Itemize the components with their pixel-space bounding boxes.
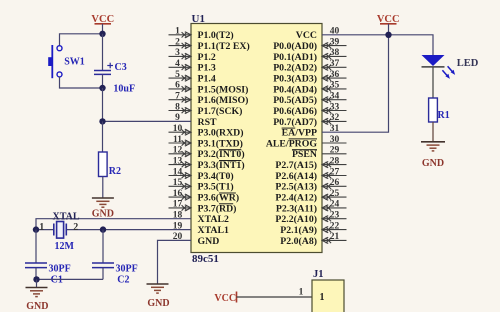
svg-text:17: 17 [173, 200, 183, 210]
designator J1 [313, 269, 324, 280]
value 30PF (C1) [49, 264, 71, 275]
U1 pin 26 (P2.5(A13)) [275, 178, 346, 193]
J1 pin number 1 [299, 288, 304, 298]
svg-text:GND: GND [422, 158, 444, 169]
svg-text:29: 29 [330, 146, 340, 156]
svg-text:PSEN: PSEN [292, 149, 317, 160]
wire to RST (pin 9) [103, 88, 192, 121]
svg-text:14: 14 [173, 167, 183, 177]
svg-text:P0.1(AD1): P0.1(AD1) [273, 52, 317, 63]
capacitor C3 [94, 34, 113, 88]
svg-text:10: 10 [173, 124, 183, 134]
svg-text:P2.6(A14): P2.6(A14) [275, 171, 317, 182]
svg-text:P2.4(A12): P2.4(A12) [275, 193, 317, 204]
crystal XTAL 12M [36, 222, 103, 239]
U1 pin 3 (P1.2) [169, 48, 216, 63]
svg-text:P2.5(A13): P2.5(A13) [275, 182, 317, 193]
U1 pin 8 (P1.7(SCK)) [169, 102, 243, 117]
svg-text:22: 22 [330, 221, 340, 231]
U1 pin 14 (P3.4(T0)) [169, 167, 234, 182]
U1 pin 1 (P1.0(T2)) [169, 27, 234, 42]
svg-text:LED: LED [457, 58, 479, 69]
LED D1 [422, 55, 445, 67]
svg-text:1: 1 [320, 292, 325, 303]
ground below C1 [26, 279, 49, 312]
svg-text:P1.6(MISO): P1.6(MISO) [198, 95, 249, 106]
U1 pin 10 (P3.0(RXD)) [169, 124, 244, 139]
svg-text:12: 12 [173, 146, 183, 156]
svg-text:EA/VPP: EA/VPP [282, 128, 317, 139]
svg-text:2: 2 [73, 222, 78, 233]
power VCC bottom [214, 292, 236, 305]
ground below pin 20 [147, 284, 170, 309]
svg-text:R1: R1 [438, 110, 450, 121]
U1 pin 17 (P3.7(RD)) [169, 200, 237, 215]
svg-text:GND: GND [147, 298, 169, 309]
value label 89c51 [192, 253, 219, 265]
svg-text:VCC: VCC [214, 293, 236, 304]
U1 pin 40 (VCC) [296, 27, 340, 42]
U1 pin 36 (P0.3(AD3)) [273, 70, 346, 85]
svg-text:89c51: 89c51 [192, 253, 219, 265]
svg-text:P3.5(T1): P3.5(T1) [198, 182, 234, 193]
node C3 bottom junction [99, 85, 105, 91]
svg-text:10uF: 10uF [113, 84, 135, 95]
svg-text:28: 28 [330, 156, 340, 166]
connector J1 [312, 280, 344, 312]
designator U1 [192, 13, 205, 25]
wire XTAL2 (pin 18) to crystal left [36, 219, 191, 230]
wire SW1 bottom [60, 77, 103, 88]
svg-text:P2.3(A11): P2.3(A11) [276, 203, 317, 214]
U1 pin 30 (ALE/PROG) [266, 135, 347, 150]
svg-text:P0.7(AD7): P0.7(AD7) [273, 117, 317, 128]
ground below R2 [92, 198, 114, 220]
label C1 [51, 274, 63, 285]
node C1 bottom junction [33, 276, 39, 282]
LED emission arrows [442, 66, 455, 79]
svg-text:P2.0(A8): P2.0(A8) [280, 236, 317, 247]
svg-text:P0.2(AD2): P0.2(AD2) [273, 63, 317, 74]
svg-text:24: 24 [330, 200, 340, 210]
U1 pin 37 (P0.2(AD2)) [273, 59, 346, 74]
svg-text:13: 13 [173, 156, 183, 166]
U1 pin 34 (P0.5(AD5)) [273, 92, 346, 107]
label C2 [117, 274, 129, 285]
U1 pin 33 (P0.6(AD6)) [273, 102, 346, 117]
svg-text:32: 32 [330, 113, 340, 123]
svg-text:GND: GND [26, 301, 48, 312]
U1 pin 38 (P0.1(AD1)) [273, 48, 346, 63]
svg-text:27: 27 [330, 167, 340, 177]
svg-text:P1.2: P1.2 [198, 52, 216, 63]
U1 pin 24 (P2.3(A11)) [276, 200, 347, 215]
crystal pin 2 [73, 222, 78, 233]
svg-text:P1.1(T2 EX): P1.1(T2 EX) [198, 41, 250, 52]
svg-text:1: 1 [39, 222, 44, 233]
U1 pin 9 (RST) [175, 113, 217, 128]
ground below R1 [421, 142, 445, 169]
wire GND pin 20 [158, 240, 192, 284]
svg-text:XTAL: XTAL [53, 211, 80, 222]
value 10uF [113, 84, 135, 95]
svg-text:XTAL2: XTAL2 [198, 214, 229, 225]
node RST junction [99, 118, 105, 124]
label R2 [109, 166, 121, 177]
label LED [457, 58, 479, 69]
value 30PF (C2) [116, 264, 138, 275]
svg-text:30: 30 [330, 135, 340, 145]
U1 pin 27 (P2.6(A14)) [275, 167, 346, 182]
svg-text:P0.4(AD4): P0.4(AD4) [273, 84, 317, 95]
svg-text:37: 37 [330, 59, 340, 69]
svg-text:1: 1 [175, 27, 180, 37]
svg-text:P3.6(WR): P3.6(WR) [198, 193, 240, 204]
U1 pin 19 (XTAL1) [173, 221, 229, 236]
value 12M [55, 241, 75, 252]
node crystal left junction [33, 226, 39, 232]
svg-text:P2.7(A15): P2.7(A15) [275, 160, 317, 171]
svg-text:25: 25 [330, 189, 340, 199]
wire EA/VPP (pin 31) to VCC [322, 35, 389, 132]
U1 pin 39 (P0.0(AD0)) [273, 37, 346, 52]
U1 pin 5 (P1.4) [169, 70, 216, 85]
svg-text:P0.0(AD0): P0.0(AD0) [273, 41, 317, 52]
wire VCC to J1 pin 1 [237, 296, 313, 298]
svg-text:GND: GND [92, 209, 114, 220]
svg-text:P0.5(AD5): P0.5(AD5) [273, 95, 317, 106]
svg-text:C3: C3 [115, 62, 127, 73]
svg-text:P1.3: P1.3 [198, 63, 216, 74]
resistor R1 [429, 98, 438, 122]
node VCC right junction [385, 32, 391, 38]
U1 pin 20 (GND) [173, 232, 220, 247]
svg-text:8: 8 [175, 102, 180, 112]
label C3 [115, 62, 127, 73]
U1 pin 12 (P3.2(INT0)) [169, 146, 245, 161]
svg-text:21: 21 [330, 232, 340, 242]
svg-text:VCC: VCC [296, 30, 317, 41]
svg-text:34: 34 [330, 92, 340, 102]
capacitor C2 30PF [92, 230, 114, 280]
wire pin 40 VCC to LED branch [322, 35, 433, 55]
svg-text:P1.4: P1.4 [198, 74, 216, 85]
wire XTAL1 (pin 19) to crystal right [103, 229, 191, 231]
svg-text:3: 3 [175, 48, 180, 58]
svg-text:C2: C2 [117, 274, 129, 285]
U1 pin 13 (P3.3(INT1)) [169, 156, 245, 171]
U1 pin 32 (P0.7(AD7)) [273, 113, 346, 128]
U1 pin 6 (P1.5(MOSI)) [169, 81, 249, 96]
svg-text:U1: U1 [192, 13, 205, 25]
IC U1 89c51 body [191, 24, 322, 253]
svg-text:30PF: 30PF [49, 264, 71, 275]
U1 pin 35 (P0.4(AD4)) [273, 81, 346, 96]
node VCC junction [99, 31, 105, 37]
svg-text:16: 16 [173, 189, 183, 199]
svg-text:XTAL1: XTAL1 [198, 225, 229, 236]
wire VCC to SW1 top [60, 34, 103, 46]
label SW1 [64, 57, 85, 68]
wire R1 to ground [432, 122, 434, 142]
svg-text:P0.6(AD6): P0.6(AD6) [273, 106, 317, 117]
U1 pin 2 (P1.1(T2 EX)) [169, 37, 250, 52]
svg-text:ALE/PROG: ALE/PROG [266, 138, 318, 149]
svg-text:36: 36 [330, 70, 340, 80]
U1 pin 16 (P3.6(WR)) [169, 189, 240, 204]
svg-text:P2.2(A10): P2.2(A10) [275, 214, 317, 225]
svg-text:6: 6 [175, 81, 180, 91]
svg-text:SW1: SW1 [64, 57, 85, 68]
switch SW1 [48, 45, 62, 78]
U1 pin 28 (P2.7(A15)) [275, 156, 346, 171]
svg-text:26: 26 [330, 178, 340, 188]
wire LED to R1 [432, 67, 434, 98]
power VCC top-left [91, 14, 114, 34]
svg-text:38: 38 [330, 48, 340, 58]
svg-text:5: 5 [175, 70, 180, 80]
svg-text:39: 39 [330, 37, 340, 47]
U1 pin 21 (P2.0(A8)) [280, 232, 346, 247]
svg-text:35: 35 [330, 81, 340, 91]
U1 pin 23 (P2.2(A10)) [275, 211, 346, 226]
U1 pin 4 (P1.3) [169, 59, 216, 74]
svg-text:4: 4 [175, 59, 180, 69]
U1 pin 11 (P3.1(TXD)) [169, 135, 243, 150]
svg-text:P2.1(A9): P2.1(A9) [280, 225, 317, 236]
resistor R2 [99, 121, 108, 197]
svg-text:P3.0(RXD): P3.0(RXD) [198, 128, 244, 139]
svg-text:P1.0(T2): P1.0(T2) [198, 30, 234, 41]
U1 pin 7 (P1.6(MISO)) [169, 92, 249, 107]
svg-text:2: 2 [175, 37, 180, 47]
svg-text:P3.1(TXD): P3.1(TXD) [198, 138, 243, 149]
svg-text:12M: 12M [55, 241, 75, 252]
svg-text:P1.5(MOSI): P1.5(MOSI) [198, 84, 249, 95]
svg-text:GND: GND [198, 236, 220, 247]
power VCC top-right [377, 14, 400, 35]
svg-text:P0.3(AD3): P0.3(AD3) [273, 74, 317, 85]
label XTAL [53, 211, 80, 222]
U1 pin 29 (PSEN) [292, 146, 347, 161]
U1 pin 15 (P3.5(T1)) [169, 178, 234, 193]
U1 pin 22 (P2.1(A9)) [280, 221, 346, 236]
svg-text:P3.2(INT0): P3.2(INT0) [198, 149, 245, 160]
svg-text:11: 11 [173, 135, 182, 145]
svg-text:P3.7(RD): P3.7(RD) [198, 203, 237, 214]
svg-text:RST: RST [198, 117, 218, 128]
svg-text:P1.7(SCK): P1.7(SCK) [198, 106, 243, 117]
svg-text:23: 23 [330, 211, 340, 221]
svg-text:30PF: 30PF [116, 264, 138, 275]
wire C2 bottom to C1 bottom [36, 278, 103, 280]
node crystal right junction [100, 226, 106, 232]
U1 pin 18 (XTAL2) [173, 211, 229, 226]
U1 pin 25 (P2.4(A12)) [275, 189, 346, 204]
svg-text:1: 1 [299, 288, 304, 298]
U1 pin 31 (EA/VPP) [282, 124, 340, 139]
svg-text:P3.3(INT1): P3.3(INT1) [198, 160, 245, 171]
capacitor C1 30PF [25, 230, 47, 280]
svg-text:15: 15 [173, 178, 183, 188]
crystal pin 1 [39, 222, 44, 233]
svg-text:J1: J1 [313, 269, 324, 280]
svg-text:7: 7 [175, 92, 180, 102]
svg-text:33: 33 [330, 102, 340, 112]
label R1 [438, 110, 450, 121]
svg-text:P3.4(T0): P3.4(T0) [198, 171, 234, 182]
svg-text:R2: R2 [109, 166, 121, 177]
